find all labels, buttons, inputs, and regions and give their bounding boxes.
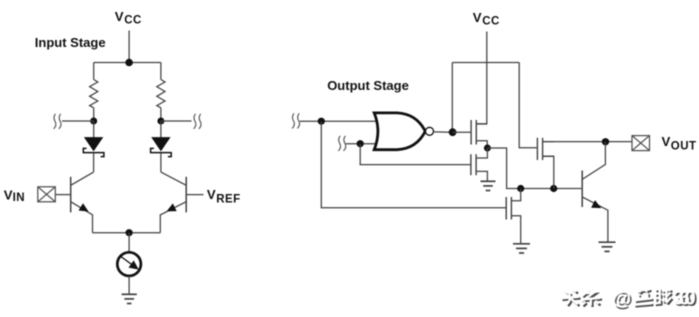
svg-text:REF: REF — [216, 193, 241, 205]
svg-text:360: 360 — [673, 287, 696, 309]
svg-text:V: V — [4, 187, 13, 202]
svg-text:IN: IN — [13, 192, 26, 204]
svg-text:OUT: OUT — [671, 140, 697, 152]
svg-text:V: V — [473, 10, 482, 25]
svg-text:V: V — [115, 9, 124, 24]
svg-text:@: @ — [612, 288, 631, 310]
svg-text:V: V — [207, 187, 216, 202]
svg-text:CC: CC — [124, 15, 142, 27]
svg-text:V: V — [662, 134, 671, 149]
svg-text:Input Stage: Input Stage — [35, 35, 106, 50]
svg-text:Output Stage: Output Stage — [327, 78, 409, 93]
svg-text:CC: CC — [482, 15, 500, 27]
